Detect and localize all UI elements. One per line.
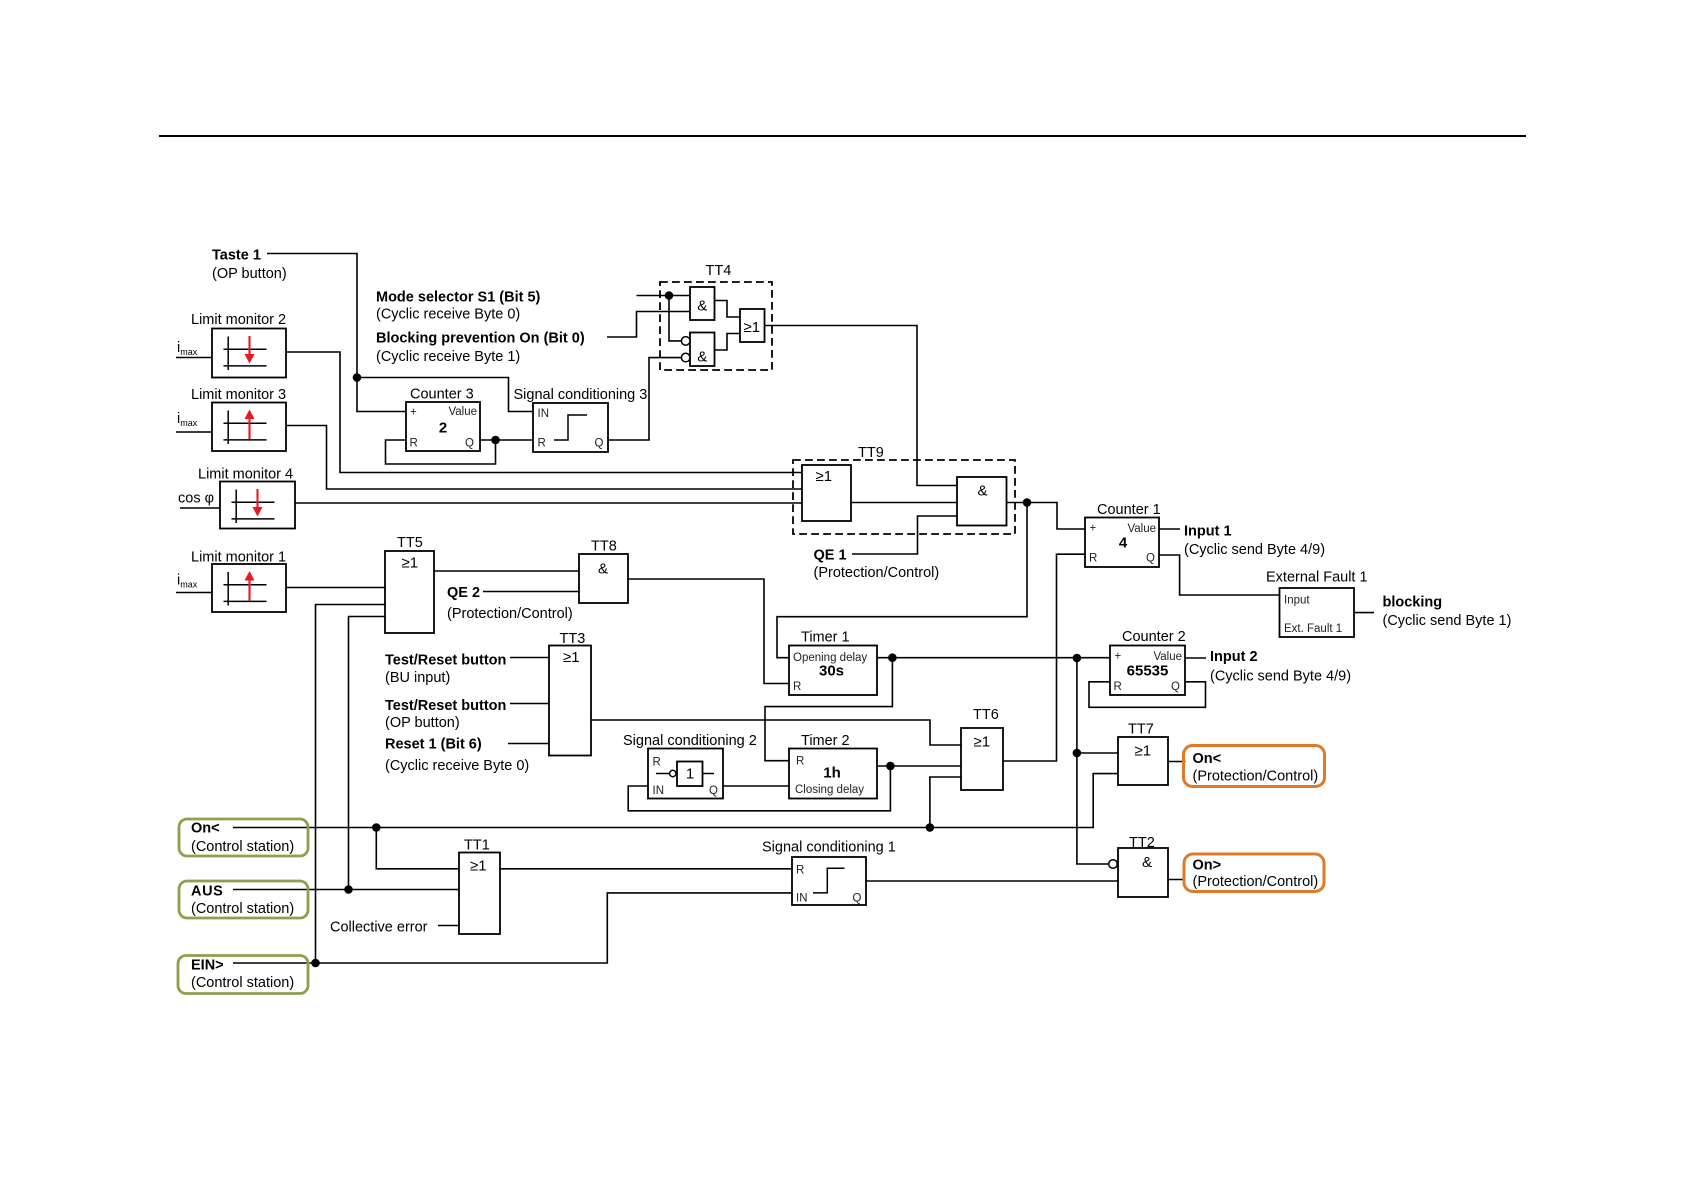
- wire Taste 1 to Counter 3 + input: [267, 254, 406, 412]
- svg-text:(Control station): (Control station): [191, 975, 294, 991]
- svg-text:TT9: TT9: [858, 445, 884, 461]
- wire node down to Timer 1 trigger input: [777, 503, 1027, 658]
- inversion bubble TT4 AND2 input 1: [681, 337, 690, 346]
- wire branch Mode selector to TT4 AND2 inverted input 1: [669, 296, 681, 341]
- and-gate U5 in TT9: [957, 477, 1007, 526]
- wire TT9 OR output to TT9 AND input 2: [851, 502, 957, 504]
- wire Mode selector S1 to TT4 AND1 input 1: [637, 295, 691, 297]
- junction On< to TT1 node: [372, 823, 381, 832]
- wire Timer 2 output feedback to Signal conditioning 2 IN: [628, 766, 890, 811]
- svg-text:Q: Q: [1146, 553, 1155, 565]
- wire TT9 AND output to node: [1007, 502, 1028, 504]
- svg-text:Taste 1: Taste 1: [212, 248, 261, 264]
- svg-text:Value: Value: [1127, 523, 1156, 535]
- svg-text:Input: Input: [1284, 595, 1310, 607]
- wire Counter 1 Value output to Input 1: [1159, 528, 1180, 530]
- svg-text:(Protection/Control): (Protection/Control): [814, 565, 940, 581]
- svg-text:65535: 65535: [1127, 663, 1169, 680]
- or-gate TT1 box: [459, 853, 500, 935]
- and-gate TT8 box: [579, 554, 628, 603]
- external fault EF1 box: [1280, 588, 1355, 637]
- and-gate U2 in TT4: [690, 333, 715, 367]
- wire i_max stub into Limit monitor 2: [176, 357, 212, 359]
- svg-text:TT1: TT1: [464, 838, 490, 854]
- signal conditioning SC2 inverter input line and bubble: [656, 773, 670, 775]
- wire cos phi stub into Limit monitor 4: [180, 507, 220, 509]
- wire Signal conditioning 2 Q to Timer 2 input: [723, 785, 789, 787]
- wire On< branch to TT1 input 1: [376, 828, 459, 869]
- counter C1 box: [1085, 518, 1159, 568]
- svg-text:Q: Q: [595, 438, 604, 450]
- svg-text:blocking: blocking: [1383, 595, 1443, 611]
- svg-text:+: +: [1090, 523, 1097, 535]
- wire TT5 input 3 chain down to AUS line: [349, 617, 386, 890]
- wire Counter 1 Q output to External Fault 1 input: [1159, 555, 1280, 595]
- svg-text:≥1: ≥1: [1135, 743, 1152, 760]
- svg-text:Collective error: Collective error: [330, 920, 428, 936]
- svg-text:On<: On<: [191, 821, 220, 837]
- wire TT4 AND1 output to TT4 OR input 1: [715, 301, 741, 318]
- wire TT8 output to Timer 1 R input: [628, 579, 789, 684]
- svg-text:cos φ: cos φ: [178, 491, 214, 507]
- svg-text:Counter 2: Counter 2: [1122, 629, 1186, 645]
- or-gate TT3 box: [549, 646, 591, 756]
- junction Counter 3 Q node: [491, 436, 500, 445]
- svg-text:External Fault 1: External Fault 1: [1266, 570, 1368, 586]
- svg-text:Limit monitor 2: Limit monitor 2: [191, 312, 286, 328]
- svg-text:Closing delay: Closing delay: [795, 784, 864, 796]
- svg-text:≥1: ≥1: [744, 319, 761, 336]
- wire Timer 1 output to Counter 2 + input: [877, 657, 1110, 659]
- dashed group TT9: [793, 460, 1015, 534]
- svg-text:imax: imax: [177, 340, 198, 357]
- svg-text:R: R: [796, 756, 804, 768]
- svg-text:&: &: [697, 349, 707, 366]
- svg-text:Q: Q: [853, 893, 862, 905]
- svg-text:Counter 1: Counter 1: [1097, 502, 1161, 518]
- svg-text:≥1: ≥1: [816, 468, 833, 485]
- limit monitor 3 symbol (up arrow): [224, 411, 267, 445]
- wire Timer 2 output to TT6 input 2: [877, 765, 961, 767]
- wire Limit monitor 4 output to TT9 input 3: [295, 502, 802, 504]
- wire TT3 output to TT6 input 1: [591, 720, 961, 745]
- wire EIN line to Signal conditioning 1 IN: [233, 893, 792, 963]
- svg-text:TT2: TT2: [1129, 835, 1155, 851]
- svg-text:&: &: [977, 483, 987, 500]
- wire TT4 AND2 output to TT4 OR input 2: [715, 334, 741, 351]
- and-gate TT2 box: [1118, 848, 1168, 897]
- limit monitor LM4 box: [220, 482, 295, 529]
- wire Test/Reset BU stub to TT3 input 1: [510, 657, 549, 659]
- svg-text:Input 2: Input 2: [1210, 649, 1258, 665]
- or-gate TT7 box: [1118, 737, 1168, 785]
- svg-text:(Cyclic send Byte 1): (Cyclic send Byte 1): [1383, 613, 1512, 629]
- and-gate U1 in TT4: [690, 287, 715, 320]
- svg-text:R: R: [1114, 681, 1122, 693]
- signal conditioning SC2 box: [648, 749, 723, 799]
- svg-text:R: R: [1089, 553, 1097, 565]
- wire Counter 3 Q output to Signal conditioning 3 R: [480, 439, 533, 441]
- svg-text:(OP button): (OP button): [212, 266, 287, 282]
- svg-text:(BU input): (BU input): [385, 670, 450, 686]
- svg-text:R: R: [796, 865, 804, 877]
- wire Reset 1 stub to TT3 input 3: [508, 743, 549, 745]
- svg-text:TT6: TT6: [973, 707, 999, 723]
- signal conditioning SC3 box: [533, 403, 608, 452]
- svg-text:Test/Reset button: Test/Reset button: [385, 653, 506, 669]
- wire TT2 output to On> protection box: [1168, 879, 1186, 881]
- wire Timer 1 output branch to Timer 2 R input: [765, 658, 892, 761]
- svg-text:(Protection/Control): (Protection/Control): [447, 606, 573, 622]
- junction TT7 input node: [1073, 749, 1082, 758]
- svg-text:Q: Q: [465, 438, 474, 450]
- svg-text:Mode selector S1 (Bit 5): Mode selector S1 (Bit 5): [376, 290, 541, 306]
- svg-text:2: 2: [439, 420, 447, 437]
- svg-text:Value: Value: [448, 406, 477, 418]
- svg-text:Blocking prevention On (Bit 0): Blocking prevention On (Bit 0): [376, 331, 585, 347]
- wire TT5 output to TT8 input 1: [434, 570, 579, 572]
- control station EIN green box: [178, 956, 308, 994]
- junction Counter 2 + input node: [1073, 654, 1082, 663]
- wire branch from Taste 1 node to Signal conditioning 3 IN: [357, 378, 533, 412]
- inversion bubble TT4 AND2 input 2: [681, 353, 690, 362]
- svg-text:Q: Q: [709, 785, 718, 797]
- wire Limit monitor 3 output to TT9 input 2: [286, 426, 802, 490]
- svg-text:TT5: TT5: [397, 535, 423, 551]
- limit monitor 1 symbol (up arrow): [224, 572, 267, 606]
- svg-text:QE 1: QE 1: [814, 548, 847, 564]
- wire Collective error stub to TT1 input 3: [438, 925, 459, 927]
- dashed group TT4: [660, 282, 772, 370]
- svg-text:Signal conditioning 2: Signal conditioning 2: [623, 733, 757, 749]
- svg-text:TT4: TT4: [706, 263, 732, 279]
- timer T2 box: [789, 749, 877, 799]
- or-gate TT5 box: [385, 551, 434, 633]
- svg-text:(Protection/Control): (Protection/Control): [1193, 874, 1319, 890]
- svg-text:QE 2: QE 2: [447, 585, 480, 601]
- junction TT9 AND output node: [1023, 498, 1032, 507]
- wire Blocking prevention to TT4 AND1 input 2: [607, 312, 690, 338]
- svg-text:(Cyclic receive Byte 1): (Cyclic receive Byte 1): [376, 349, 520, 365]
- svg-text:Timer 1: Timer 1: [801, 630, 850, 646]
- protection On< orange box: [1184, 746, 1325, 787]
- svg-text:(Protection/Control): (Protection/Control): [1193, 769, 1319, 785]
- svg-text:Timer 2: Timer 2: [801, 733, 850, 749]
- wire AUS line to TT1 input 2: [233, 889, 459, 891]
- wire node to Counter 1 + input: [1027, 503, 1085, 530]
- svg-text:R: R: [653, 757, 661, 769]
- control station On< green box: [179, 819, 308, 856]
- svg-text:EIN>: EIN>: [191, 958, 224, 974]
- timer T1 box: [789, 646, 877, 696]
- svg-text:Signal conditioning 1: Signal conditioning 1: [762, 840, 896, 856]
- wire i_max stub into Limit monitor 1: [176, 592, 212, 594]
- svg-text:Limit monitor 4: Limit monitor 4: [198, 467, 293, 483]
- control station AUS green box: [179, 881, 308, 918]
- junction Mode selector node: [665, 291, 674, 300]
- wire QE 2 stub to TT8 input 2: [483, 591, 579, 593]
- or-gate U4 in TT9: [802, 465, 851, 521]
- wire Counter 2 feedback Q to R: [1089, 682, 1206, 708]
- svg-text:(Control station): (Control station): [191, 839, 294, 855]
- svg-text:TT3: TT3: [560, 631, 586, 647]
- limit monitor 4 symbol (down arrow): [232, 490, 275, 524]
- limit monitor 2 symbol (down arrow): [224, 337, 267, 371]
- svg-text:TT7: TT7: [1128, 722, 1154, 738]
- wire TT4 output to TT9 AND input 1: [765, 326, 958, 486]
- svg-text:IN: IN: [796, 893, 808, 905]
- wire On< branch to TT6 input 3: [930, 777, 961, 828]
- wire node down to TT2 inverted input: [1077, 658, 1109, 864]
- wire TT1 output to Signal conditioning 1 R: [500, 868, 792, 870]
- svg-text:R: R: [538, 438, 546, 450]
- wire Counter 3 feedback Q to R: [386, 440, 496, 464]
- junction AUS line node: [344, 885, 353, 894]
- svg-text:AUS: AUS: [191, 884, 223, 900]
- svg-text:Limit monitor 1: Limit monitor 1: [191, 550, 286, 566]
- svg-text:4: 4: [1119, 535, 1128, 552]
- svg-text:On<: On<: [1193, 751, 1222, 767]
- svg-text:(Cyclic receive Byte 0): (Cyclic receive Byte 0): [385, 758, 529, 774]
- svg-text:Counter 3: Counter 3: [410, 387, 474, 403]
- svg-text:R: R: [410, 438, 418, 450]
- svg-text:Limit monitor 3: Limit monitor 3: [191, 387, 286, 403]
- wire TT5 input 2 chain down to EIN line: [316, 605, 386, 964]
- wire External Fault 1 output to blocking: [1354, 612, 1374, 614]
- junction On< to TT6 node: [926, 823, 935, 832]
- protection On> orange box: [1184, 854, 1324, 892]
- limit monitor LM1 box: [212, 564, 286, 612]
- wire On< control station line to TT7 input 2: [233, 774, 1118, 828]
- wire Counter 2 Value output to Input 2: [1185, 657, 1206, 659]
- wire TT6 output to Counter 1 R input: [1003, 554, 1085, 761]
- top horizontal rule: [159, 135, 1526, 137]
- svg-text:1h: 1h: [823, 765, 841, 782]
- inverter box inside SC2: [677, 762, 703, 787]
- svg-text:Signal conditioning 3: Signal conditioning 3: [514, 387, 648, 403]
- svg-text:IN: IN: [653, 785, 665, 797]
- svg-text:Input 1: Input 1: [1184, 524, 1232, 540]
- junction Taste1/SC3 branch node: [353, 373, 362, 382]
- svg-text:(Cyclic receive Byte 0): (Cyclic receive Byte 0): [376, 307, 520, 323]
- svg-text:(Cyclic send Byte 4/9): (Cyclic send Byte 4/9): [1184, 542, 1325, 558]
- svg-text:imax: imax: [177, 573, 198, 590]
- counter C3 box: [406, 402, 480, 451]
- or-gate U3 in TT4: [740, 309, 765, 342]
- svg-text:≥1: ≥1: [974, 734, 991, 751]
- junction Timer 2 output node: [886, 762, 895, 771]
- svg-text:+: +: [410, 407, 417, 419]
- svg-text:≥1: ≥1: [563, 649, 580, 666]
- junction Timer 1 output node: [888, 653, 897, 662]
- svg-text:Value: Value: [1153, 651, 1182, 663]
- svg-text:(OP button): (OP button): [385, 715, 460, 731]
- svg-text:Ext. Fault 1: Ext. Fault 1: [1284, 623, 1342, 635]
- svg-text:&: &: [598, 561, 608, 578]
- svg-text:≥1: ≥1: [470, 858, 487, 875]
- svg-text:+: +: [1115, 651, 1122, 663]
- limit monitor LM3 box: [212, 403, 286, 452]
- inversion bubble TT2 input 1: [1109, 860, 1118, 869]
- svg-text:(Control station): (Control station): [191, 901, 294, 917]
- limit monitor LM2 box: [212, 329, 286, 378]
- svg-text:(Cyclic send Byte 4/9): (Cyclic send Byte 4/9): [1210, 669, 1351, 685]
- svg-text:1: 1: [686, 766, 694, 783]
- svg-text:Reset 1 (Bit 6): Reset 1 (Bit 6): [385, 737, 482, 753]
- or-gate TT6 box: [961, 728, 1003, 790]
- signal conditioning SC1 step symbol: [813, 868, 845, 893]
- svg-text:≥1: ≥1: [402, 555, 419, 572]
- svg-text:TT8: TT8: [591, 539, 617, 555]
- signal conditioning SC1 box: [792, 857, 866, 905]
- junction EIN line node: [311, 959, 320, 968]
- wire Signal conditioning 3 Q to TT4 AND2 inverted input 2: [608, 358, 681, 440]
- wire i_max stub into Limit monitor 3: [176, 431, 212, 433]
- svg-text:IN: IN: [538, 408, 550, 420]
- signal conditioning SC3 step symbol: [554, 415, 587, 440]
- svg-text:&: &: [1142, 854, 1152, 871]
- wire node to TT7 input 1: [1077, 752, 1118, 754]
- counter C2 box: [1110, 646, 1185, 696]
- wire Limit monitor 1 output to TT5 input 1: [286, 587, 385, 589]
- svg-text:30s: 30s: [819, 663, 844, 680]
- svg-text:imax: imax: [177, 411, 198, 428]
- wire QE 1 to TT9 AND input 3: [852, 516, 957, 554]
- wire Limit monitor 2 output to TT9 input 1: [286, 352, 802, 473]
- svg-text:On>: On>: [1193, 858, 1222, 874]
- svg-text:Q: Q: [1171, 681, 1180, 693]
- svg-text:&: &: [697, 298, 707, 315]
- svg-text:R: R: [793, 681, 801, 693]
- svg-text:Test/Reset button: Test/Reset button: [385, 698, 506, 714]
- wire Test/Reset OP stub to TT3 input 2: [510, 703, 549, 705]
- wire TT7 output to On< protection box: [1168, 761, 1186, 763]
- wire Signal conditioning 1 Q to TT2 input 2: [866, 880, 1118, 882]
